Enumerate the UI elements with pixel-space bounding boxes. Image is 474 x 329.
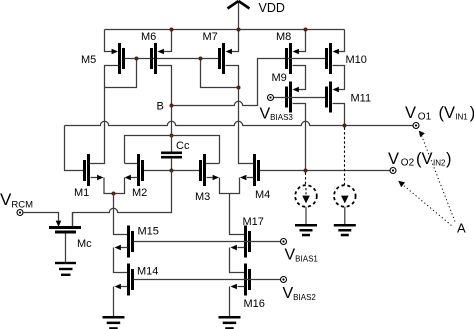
annotation arrow A to V_O1 — [419, 131, 455, 222]
label M16 — [244, 298, 265, 310]
label M8 — [276, 31, 291, 43]
transistor M10 — [325, 30, 345, 75]
node dot Cc bottom — [170, 169, 174, 173]
wire V_RCM to Mc source — [23, 213, 61, 228]
transistor M6 — [150, 30, 172, 75]
label B — [157, 101, 164, 113]
terminal VBIAS1 — [281, 239, 287, 245]
current source I2 (dashed circle) — [334, 128, 356, 207]
wire M5-M6-M7 gate bias line — [125, 58, 220, 60]
label V_BIAS3 — [260, 106, 294, 123]
current source I1 (dashed circle) — [295, 173, 317, 207]
ground M16 — [219, 316, 241, 329]
wire M5 diode loop — [105, 59, 137, 88]
wire M10 drain to M11 source — [333, 66, 345, 90]
transistor M5 — [105, 30, 126, 75]
transistor M15 — [114, 226, 135, 273]
label M6 — [141, 31, 156, 43]
label A — [457, 221, 466, 236]
wire M8/M10 gate line — [288, 58, 326, 60]
wire M6 drain to node B — [158, 66, 172, 106]
node dot M7 gate — [199, 57, 203, 61]
terminal V_RCM — [17, 210, 23, 216]
svg-text:VDD: VDD — [259, 1, 285, 15]
terminal VBIAS2 — [281, 277, 287, 283]
node dot V_O2/M9 drain — [304, 169, 308, 173]
transistor M16 — [230, 264, 252, 317]
transistor M7 — [218, 30, 239, 75]
wire tail1 down to M15 drain — [114, 194, 128, 235]
svg-text:M9: M9 — [272, 72, 287, 84]
node dot Cc top — [170, 134, 174, 138]
terminal V_O2 — [390, 168, 396, 174]
svg-text:A: A — [457, 221, 466, 236]
label V_O2 (V_IN2) — [388, 150, 452, 169]
svg-text:M5: M5 — [81, 54, 96, 66]
node dot rail-M8 — [304, 28, 308, 32]
transistor M9 — [285, 82, 299, 113]
svg-text:M15: M15 — [138, 226, 159, 238]
terminal VBIAS3 — [268, 95, 274, 101]
wire V_O1 to M1 gate — [65, 126, 84, 171]
label Mc — [77, 238, 92, 250]
wire V_O2 line (M4 gate to terminal) — [260, 170, 390, 172]
ground M14 — [103, 316, 125, 329]
label V_RCM — [0, 190, 33, 211]
wire M7 drain down to M4 drain — [226, 66, 254, 164]
wire I2 to ground — [344, 207, 346, 224]
svg-text:Cc: Cc — [176, 140, 190, 152]
label M1 — [74, 187, 89, 199]
node dot B — [170, 104, 174, 108]
wire node B to M8 gate — [172, 59, 286, 106]
node dot M5/M6 gates — [135, 57, 139, 61]
transistor M1 — [83, 154, 114, 194]
wire VBIAS2 line — [134, 279, 281, 281]
svg-text:M17: M17 — [243, 216, 264, 228]
wire M11 drain to VO1 node — [333, 104, 345, 126]
label M9 — [272, 72, 287, 84]
capacitor Cc — [161, 136, 182, 171]
wire M7 diode loop — [201, 59, 239, 88]
transistor M11 — [325, 82, 339, 113]
wire Cc top rail to M2/M3 drains — [125, 136, 220, 164]
label V_BIAS1 — [285, 247, 319, 264]
terminal V_O1 — [413, 123, 419, 129]
svg-text:M10: M10 — [346, 54, 367, 66]
label M2 — [132, 187, 147, 199]
svg-text:M7: M7 — [203, 31, 218, 43]
transistor M4 — [230, 154, 261, 194]
ground I2 — [334, 224, 356, 236]
ground Mc — [55, 262, 76, 276]
svg-text:M1: M1 — [74, 187, 89, 199]
wire M5 drain down to M1 drain — [90, 66, 118, 164]
label Cc — [176, 140, 190, 152]
label M3 — [195, 191, 210, 203]
svg-text:M8: M8 — [276, 31, 291, 43]
label V_BIAS2 — [283, 285, 317, 302]
label M5 — [81, 54, 96, 66]
svg-text:Mc: Mc — [77, 238, 92, 250]
power rail VDD — [105, 29, 345, 31]
svg-text:M3: M3 — [195, 191, 210, 203]
wire node B down to Cc top — [171, 106, 173, 136]
label M14 — [137, 266, 158, 278]
label V_O1 (V_IN1) — [405, 104, 474, 123]
label M10 — [346, 54, 367, 66]
transistor M17 — [230, 226, 252, 273]
node dot tail M1/M2 — [112, 192, 116, 196]
transistor M14 — [114, 264, 135, 317]
svg-text:B: B — [157, 101, 164, 113]
transistor M2 — [114, 154, 145, 194]
ground I1 — [295, 224, 317, 236]
node dot V_O1/M11 drain — [343, 124, 347, 128]
transistor M8 — [285, 30, 306, 75]
label M4 — [255, 189, 270, 201]
svg-text:M4: M4 — [255, 189, 270, 201]
wire I1 to ground — [305, 207, 307, 224]
node dot rail-M6 — [170, 28, 174, 32]
svg-text:M2: M2 — [132, 187, 147, 199]
svg-text:M14: M14 — [137, 266, 158, 278]
wire Cc bottom down to Mc drain line — [73, 171, 172, 228]
svg-text:M16: M16 — [244, 298, 265, 310]
node dot rail-VDD stem — [237, 28, 241, 32]
svg-text:M6: M6 — [141, 31, 156, 43]
label VDD — [259, 1, 285, 15]
wire M2 gate to M3 gate — [144, 170, 199, 172]
wire M9 drain down to VO2 node — [293, 104, 306, 171]
label M15 — [138, 226, 159, 238]
wire V_O1 line — [65, 121, 414, 125]
label M7 — [203, 31, 218, 43]
wire VBIAS1 line — [134, 241, 281, 243]
wire tail2 down to M17 drain — [230, 194, 245, 235]
label M11 — [351, 93, 372, 105]
VDD supply symbol — [228, 1, 250, 30]
transistor M3 — [199, 154, 230, 194]
transistor Mc (rotated, gate down) — [49, 213, 81, 263]
svg-text:M11: M11 — [351, 93, 372, 105]
wire VBIAS3 to M9/M11 gates — [274, 97, 325, 99]
wire M8 drain to M9 source — [293, 66, 306, 90]
annotation arrow A to V_O2 — [398, 181, 451, 226]
node dot M7 drain loop — [237, 86, 241, 90]
label M17 — [243, 216, 264, 228]
